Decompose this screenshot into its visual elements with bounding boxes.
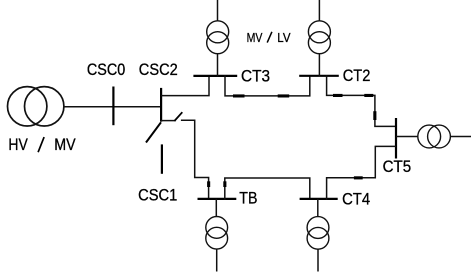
svg-text:CSC2: CSC2 (139, 61, 178, 79)
wire switch to TB busbar (181, 120, 209, 200)
closed switch indicator on TB left drop (207, 181, 210, 187)
disconnector CSC0 (112, 87, 114, 126)
svg-text:MV: MV (247, 30, 263, 45)
transformer TB load (206, 217, 228, 250)
svg-text:CT5: CT5 (383, 158, 412, 176)
transformer CT4 load (307, 217, 329, 250)
wire CT4 to CT5 busbar (327, 146, 396, 200)
open switch CSC2 to CSC1 (blade) (146, 122, 161, 142)
closed switch indicator on CT4-CT5 wire (354, 176, 363, 179)
svg-text:MV: MV (54, 136, 75, 154)
busbar CT2 (299, 75, 339, 77)
closed switch indicator on CT2-CT5 vertical (373, 111, 376, 120)
svg-text:HV: HV (8, 136, 27, 154)
wire CSC2 to CT3 busbar (161, 75, 209, 95)
svg-text:CT3: CT3 (241, 68, 270, 86)
closed switch indicator on CT2-CT5 wire (right) (364, 94, 373, 97)
disconnector CSC1 stub (161, 144, 163, 173)
svg-text:CSC1: CSC1 (138, 186, 177, 204)
wire T2 feeder riser (318, 0, 320, 77)
closed switch indicator on CT3-CT2 wire (right) (278, 94, 290, 97)
svg-text:LV: LV (277, 30, 291, 45)
svg-text:CT4: CT4 (342, 190, 370, 208)
svg-text:CSC0: CSC0 (87, 61, 125, 79)
wire TB to CT4 (225, 178, 310, 200)
transformer T3 MV/LV (207, 21, 229, 54)
busbar CT4 (300, 198, 338, 200)
wire CT4 load tail (317, 249, 319, 271)
closed switch indicator on CT3-CT2 wire (left) (233, 94, 245, 97)
transformer T2 MV/LV (308, 21, 330, 54)
wire CT2 to CT5 busbar (327, 75, 396, 126)
transformer T0 HV/MV (8, 87, 64, 126)
wire CT4 transformer drop (317, 199, 319, 217)
wire TB load tail (216, 249, 218, 271)
wire CT3 to CT2 (225, 75, 310, 96)
slash in HV / MV (38, 137, 44, 152)
busbar CT5 (395, 118, 397, 159)
svg-text:TB: TB (239, 189, 257, 207)
label MV / LV (247, 30, 291, 45)
disconnector CSC2 (160, 88, 162, 122)
label HV / MV (8, 136, 75, 154)
wire CT5 to T5 (396, 136, 418, 138)
open switch CSC2 to TB (blade) (174, 112, 182, 121)
busbar TB (198, 198, 237, 200)
wire TB transformer drop (215, 199, 217, 217)
wire T3 feeder riser (217, 0, 219, 77)
open switch CSC2 to TB (stub) (161, 120, 176, 122)
wire T5 to right edge (450, 136, 471, 138)
closed switch indicator on CT2-CT5 wire (left) (333, 94, 343, 97)
svg-text:CT2: CT2 (343, 67, 371, 85)
closed switch indicator on TB right drop (223, 181, 226, 187)
busbar CT3 (193, 75, 237, 77)
slash in MV / LV (267, 32, 272, 43)
wire main bus from T0 to CSC2 (64, 106, 161, 108)
transformer T5 (418, 125, 451, 148)
